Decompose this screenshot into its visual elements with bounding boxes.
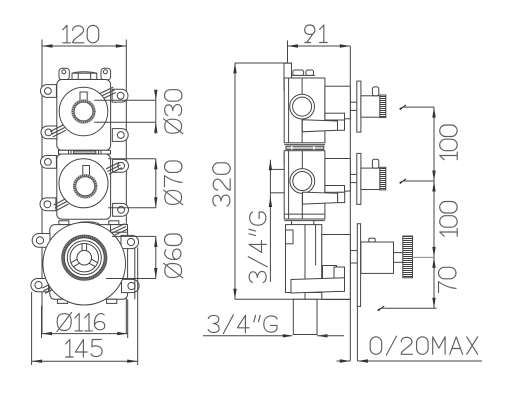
- dimension text Ø116: [57, 314, 71, 331]
- dimension Ø30 line and arrows: [155, 90, 157, 134]
- side unit 2 spindle: [350, 173, 357, 175]
- valve box 1 body: [57, 80, 111, 151]
- side unit 3 spindle: [350, 250, 357, 252]
- side unit 3 lever arm: [291, 278, 345, 293]
- outlet pipe: [293, 299, 317, 334]
- side unit 2 top screw plate: [293, 152, 304, 157]
- side unit 1 lever step: [325, 113, 345, 120]
- 0/20MAX extension line: [356, 306, 358, 361]
- side unit 3 lever step: [323, 266, 337, 279]
- right dimension chain line: [433, 107, 435, 308]
- valve box 1 right upper ear: [112, 89, 128, 102]
- bottom reference line: [381, 307, 437, 309]
- strip between side units 2 and 3: [284, 220, 325, 222]
- dimension text 70: [439, 267, 457, 292]
- dimension text 320: [213, 163, 231, 206]
- dimension text 100 upper: [440, 125, 458, 160]
- side unit 3 cartridge column: [315, 225, 317, 266]
- thermostat knob inner ring: [67, 241, 101, 275]
- side unit 2 handle body: [361, 168, 380, 189]
- dimension 120 extension lines: [41, 40, 43, 334]
- side unit 3 center line: [304, 225, 306, 300]
- side unit 1 inlet port circles: [290, 94, 315, 119]
- dimension 320 bottom extension line: [235, 298, 284, 300]
- valve box 1 handle index notch: [80, 92, 87, 101]
- dimension 91 line with arrows: [288, 45, 351, 47]
- valve box 2 strap hatch top-right: [106, 162, 119, 169]
- side unit 3 main body: [286, 225, 322, 293]
- dimension Ø116 extension lines: [41, 306, 43, 339]
- side unit 3 back boss: [286, 230, 294, 244]
- valve box 1 top mounting tabs: [59, 68, 69, 80]
- side unit 1 top screw plate: [292, 74, 315, 76]
- dimension text Ø70: [164, 161, 183, 205]
- valve box 3 bottom tabs: [57, 299, 67, 303]
- valve box 2 trim circle Ø70: [59, 159, 108, 208]
- box bottom line: [284, 298, 350, 300]
- valve box 2 knurled cartridge circle: [74, 175, 96, 197]
- side unit 1 front box section: [325, 86, 350, 119]
- side unit 2 lever step: [325, 186, 345, 193]
- valve box 3 right upper ear: [121, 235, 139, 248]
- valve box 3 trim circle Ø116: [43, 222, 126, 305]
- dimension 120 line with arrows: [42, 45, 126, 47]
- dimension Ø30 leader lines: [94, 99, 156, 101]
- side unit 2 lever end block: [338, 192, 345, 202]
- valve box 2 strap hatch bottom-left: [54, 199, 66, 205]
- valve box 1 knurled cartridge circle Ø30: [73, 101, 95, 123]
- dimension text Ø30: [164, 90, 183, 134]
- side unit 2 knurled knob: [380, 167, 386, 190]
- dimension text 91: [305, 25, 315, 43]
- side unit 1 left column line: [288, 78, 290, 143]
- side unit 2 inlet port circles: [290, 169, 315, 194]
- valve box 1 right lower ear: [112, 129, 128, 142]
- dimension Ø70 line and arrows: [155, 159, 157, 208]
- outlet dimension 3/4G underline: [203, 335, 292, 337]
- thermostat knob spokes: [82, 243, 87, 250]
- side unit 1 main body: [284, 78, 325, 143]
- valve box 2 right lower ear: [113, 203, 129, 216]
- side unit 1 spindle: [350, 101, 357, 103]
- valve box 3 left upper ear: [32, 234, 50, 248]
- side unit 2 main body: [284, 151, 325, 219]
- side unit 2 lever arm: [303, 192, 338, 204]
- valve box 1 trim circle: [59, 87, 108, 136]
- dimension text 120: [63, 25, 67, 43]
- valve box 1 top terminal strip: [72, 73, 97, 79]
- valve box 3 strap hatch top-right: [111, 224, 125, 231]
- dimension text 145: [66, 340, 70, 358]
- tabs between box 2 and box 3: [59, 221, 69, 225]
- outlet dimension right arrow: [317, 334, 328, 337]
- side unit 3 thermostat body: [361, 242, 394, 273]
- side unit 3 knurled temperature wheel: [403, 236, 413, 278]
- dimension Ø70 leader lines: [108, 158, 156, 160]
- side unit 1 knurled knob: [380, 95, 386, 118]
- side unit 2 handle button: [372, 159, 378, 168]
- side unit 2 front box section: [325, 159, 350, 192]
- side unit 2 back boss: [284, 153, 295, 166]
- strip between box 1 and box 2: [59, 150, 111, 154]
- valve box 1 left upper ear: [41, 85, 57, 98]
- side unit 1 wall plate: [357, 81, 361, 132]
- dimension text 0/20MAX: [370, 337, 382, 355]
- 0/20MAX dimension line and arrows: [337, 360, 351, 362]
- thermostat knob knurled rim Ø60: [63, 236, 106, 279]
- side unit 3 neck to wheel: [394, 252, 403, 254]
- side unit 1 handle body: [361, 96, 380, 117]
- valve box 2 left lower ear: [40, 198, 56, 211]
- dimension 320 line with arrows: [234, 63, 236, 299]
- leader unit 3 center: [413, 256, 435, 258]
- dimension chain arrows: [432, 107, 435, 118]
- leader unit 1 center: [403, 106, 434, 108]
- side unit 2 wall plate: [357, 153, 361, 204]
- dimension 145 line with arrows: [32, 360, 138, 362]
- dimension 91 extension line left: [287, 41, 289, 63]
- side unit 1 handle button: [372, 87, 378, 96]
- dimension text 3/4G horizontal: [208, 315, 219, 332]
- 3/4G inlet leader line with arrows: [269, 160, 271, 282]
- valve box 3 left lower ear: [31, 279, 49, 292]
- dimension text Ø60: [164, 234, 183, 278]
- valve box 1 left lower ear: [41, 126, 57, 139]
- dimension 320 top extension line: [235, 62, 292, 64]
- side unit 1 back boss: [284, 63, 292, 90]
- wall line / box front edge: [349, 46, 351, 361]
- dimension Ø60 line and arrows: [155, 236, 157, 278]
- strip between side units 1 and 2: [284, 144, 325, 146]
- 3/4G inlet leader ticks: [270, 168, 284, 170]
- side unit 1 center line: [301, 78, 303, 143]
- valve box 2 handle index notch: [83, 166, 90, 176]
- valve box 3 top-right small block: [111, 225, 128, 233]
- dimension text 100 lower: [440, 202, 458, 237]
- side unit 1 lever end block: [338, 120, 345, 130]
- valve box 1 strap hatch bottom-left: [50, 125, 63, 132]
- dimension text 3/4G vertical: [248, 212, 267, 282]
- valve box 2 body: [57, 154, 111, 219]
- valve box 2 right upper ear: [113, 159, 129, 172]
- dimension Ø116 line with arrows: [42, 333, 128, 335]
- side unit 3 front box section: [322, 235, 351, 300]
- side unit 1 lever arm: [302, 120, 337, 132]
- valve box 2 left upper ear: [41, 156, 57, 169]
- side unit 2 left column line: [288, 151, 290, 219]
- dimension Ø60 leader lines: [112, 235, 156, 237]
- valve box 1 strap hatch top-right: [99, 87, 113, 94]
- side unit 3 lever end block: [334, 267, 345, 279]
- side unit 3 thermostat button: [369, 238, 376, 242]
- valve box 3 body (thermostat): [50, 225, 128, 300]
- valve box 3 strap hatch bottom-left: [42, 282, 55, 289]
- side unit 3 wall plate: [357, 224, 360, 307]
- valve box 3 right lower ear: [122, 279, 140, 292]
- side unit 2 center line: [301, 151, 303, 219]
- leader unit 2 center: [403, 180, 434, 182]
- dimension 145 extension lines: [31, 292, 33, 365]
- thermostat knob hub: [77, 250, 92, 265]
